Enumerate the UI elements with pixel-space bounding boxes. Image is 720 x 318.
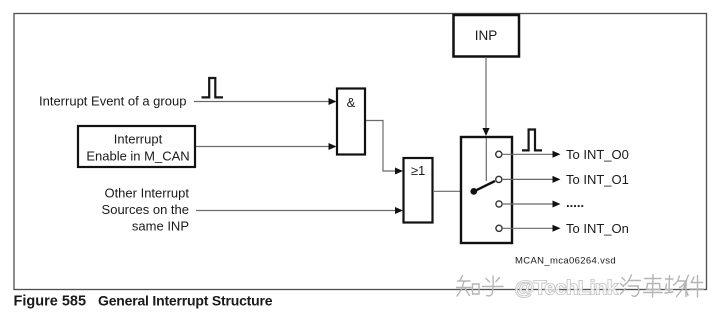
svg-text:Sources on the: Sources on the xyxy=(102,202,189,217)
label Other Interrupt Sources on the same INP xyxy=(102,186,190,234)
node pivot xyxy=(470,188,477,195)
svg-text:MCAN_mca06264.vsd: MCAN_mca06264.vsd xyxy=(515,256,616,267)
AND gate U1 xyxy=(337,89,365,155)
wire enable to AND gate xyxy=(196,143,337,150)
pulse symbol 1 xyxy=(202,78,224,97)
INP box xyxy=(454,15,520,57)
svg-text:To INT_O1: To INT_O1 xyxy=(566,172,629,187)
svg-text:same INP: same INP xyxy=(132,219,189,234)
svg-text:Other Interrupt: Other Interrupt xyxy=(104,186,189,201)
label To INT_On xyxy=(566,221,629,236)
wire INP select line inside switch xyxy=(485,138,487,181)
wire to INT_O1 xyxy=(502,176,561,183)
svg-text:&: & xyxy=(347,95,356,110)
watermark glyph ruan xyxy=(665,276,688,297)
wire INP to selector xyxy=(482,57,489,136)
svg-text:To INT_On: To INT_On xyxy=(566,221,629,236)
svg-text:Interrupt: Interrupt xyxy=(114,132,163,147)
svg-text:To INT_O0: To INT_O0 xyxy=(566,147,629,162)
svg-text:General Interrupt Structure: General Interrupt Structure xyxy=(98,293,273,309)
wire event to AND gate xyxy=(194,98,337,105)
watermark glyph jian xyxy=(684,275,704,297)
svg-text:Figure 585: Figure 585 xyxy=(14,294,87,310)
switch lever xyxy=(474,181,495,191)
label To INT_O1 xyxy=(566,172,629,187)
watermark glyph zhi xyxy=(457,276,480,297)
wire AND gate to OR gate xyxy=(366,121,403,175)
wire to INT_On xyxy=(502,225,561,232)
contact circle O0 xyxy=(496,151,502,157)
watermark Zhihu TechLink xyxy=(457,276,504,297)
figure caption xyxy=(14,293,273,310)
contact circle On xyxy=(496,225,502,231)
wire to INT_O0 xyxy=(502,151,561,158)
svg-text:@TechLink: @TechLink xyxy=(515,276,619,299)
svg-text:≥1: ≥1 xyxy=(411,163,425,178)
Interrupt Enable in M_CAN box xyxy=(78,126,195,167)
label To INT_O0 xyxy=(566,147,629,162)
label dots xyxy=(566,195,584,210)
wire OR gate to selector pivot xyxy=(433,190,474,192)
watermark latin text TechLink xyxy=(515,276,619,299)
svg-text:INP: INP xyxy=(475,28,498,43)
watermark glyph che xyxy=(644,275,663,298)
contact circle O2 xyxy=(496,201,502,207)
wire to dots row xyxy=(502,201,561,208)
svg-text:.....: ..... xyxy=(566,195,584,210)
contact circle O1 xyxy=(496,176,502,182)
svg-text:Enable in M_CAN: Enable in M_CAN xyxy=(86,149,189,164)
pulse symbol 2 xyxy=(522,130,542,151)
svg-text:Interrupt Event of a group: Interrupt Event of a group xyxy=(39,94,186,109)
watermark glyph qi xyxy=(621,275,641,296)
label MCAN_mca06264.vsd xyxy=(515,256,616,267)
wire other sources to OR gate xyxy=(196,207,403,214)
watermark glyph hu xyxy=(483,276,504,296)
selector switch box xyxy=(461,137,512,243)
label Interrupt Event of a group xyxy=(39,94,186,109)
OR gate U2 xyxy=(404,158,433,223)
